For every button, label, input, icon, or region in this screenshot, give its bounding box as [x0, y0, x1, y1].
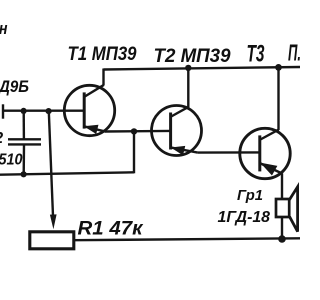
wire: input wire to T1 base — [3, 109, 85, 111]
svg-text:Т3: Т3 — [247, 40, 265, 67]
speaker Gr1 1GD-18 body — [276, 199, 289, 217]
wire: lower return wire to left edge — [0, 172, 134, 174]
svg-text:R1 47к: R1 47к — [78, 218, 144, 240]
capacitor C 510: bottom lead — [23, 145, 26, 175]
wire: T2 collector lead to bus — [187, 68, 189, 108]
node: junction dot T1 emitter to T2 base — [131, 128, 137, 134]
wire: speaker to bottom bus — [281, 217, 283, 239]
diode D (Д9Б) cathode bar at left edge — [2, 104, 4, 118]
node: junction dot capacitor top — [21, 108, 27, 114]
capacitor C 510: bottom plate — [8, 143, 41, 145]
transistor T3 — [240, 128, 290, 178]
wiper arrowhead of R1 — [50, 214, 57, 229]
transistor T2 MP39 — [152, 106, 202, 156]
wire: T1 emitter to T2 base — [105, 130, 171, 133]
node: junction dot T2 collector on bus — [185, 65, 191, 71]
node: junction dot speaker lead on bottom bus — [278, 235, 286, 243]
node: junction dot T3 collector on bus — [275, 64, 282, 71]
wire: potentiometer wiper line — [49, 111, 53, 216]
svg-text:Т1 МП39: Т1 МП39 — [68, 44, 137, 65]
node: junction dot capacitor bottom — [21, 171, 27, 177]
speaker Gr1 horn — [290, 187, 298, 232]
svg-text:Т2 МП39: Т2 МП39 — [154, 45, 231, 67]
svg-text:Гр1: Гр1 — [237, 188, 263, 204]
svg-text:2: 2 — [0, 130, 4, 147]
node: junction dot potentiometer wiper line — [46, 108, 52, 114]
capacitor C 510: top lead — [23, 111, 26, 139]
wire: T3 collector lead to bus — [277, 67, 279, 130]
svg-text:Д9Б: Д9Б — [0, 78, 29, 96]
wire: T1 collector lead to bus — [102, 69, 104, 86]
svg-text:1ГД-18: 1ГД-18 — [218, 209, 271, 226]
wire: bottom return bus — [74, 238, 301, 240]
wire: T2 emitter to T3 base — [198, 151, 260, 154]
potentiometer R1 47k body — [30, 232, 74, 249]
wire: top supply bus — [104, 67, 301, 70]
wire: T3 emitter down to speaker — [281, 173, 283, 199]
transistor T1 MP39 — [64, 85, 114, 136]
svg-text:510: 510 — [0, 152, 23, 169]
svg-text:П.: П. — [288, 40, 300, 66]
svg-text:н: н — [0, 20, 8, 38]
wire: vertical from T1 emitter junction down to return wire — [133, 131, 135, 173]
capacitor C 510: top plate — [8, 138, 41, 140]
